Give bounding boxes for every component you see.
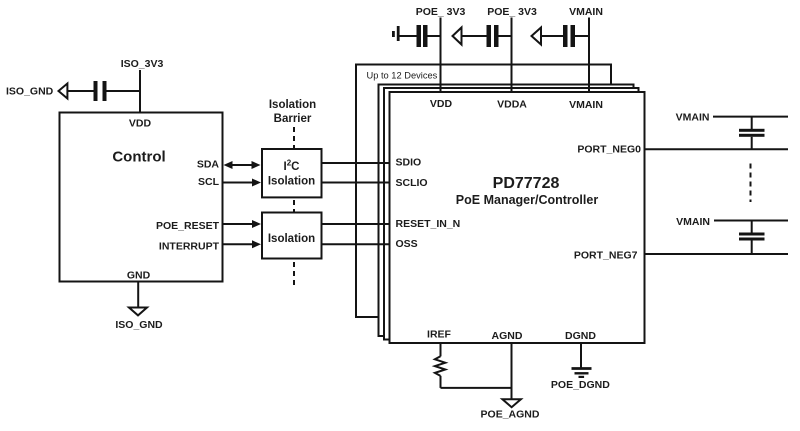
- svg-text:IREF: IREF: [427, 329, 452, 341]
- svg-text:Up to 12 Devices: Up to 12 Devices: [367, 70, 438, 80]
- svg-text:ISO_3V3: ISO_3V3: [121, 58, 164, 70]
- svg-text:DGND: DGND: [565, 330, 596, 342]
- svg-text:VDD: VDD: [129, 118, 152, 130]
- svg-text:SDA: SDA: [197, 159, 220, 171]
- svg-text:POE_ 3V3: POE_ 3V3: [416, 6, 466, 18]
- svg-text:PORT_NEG0: PORT_NEG0: [577, 144, 641, 156]
- svg-text:VMAIN: VMAIN: [676, 216, 710, 228]
- svg-text:ISO_GND: ISO_GND: [6, 86, 54, 98]
- svg-text:Barrier: Barrier: [274, 113, 312, 125]
- svg-text:I2C: I2C: [284, 159, 300, 174]
- svg-text:Control: Control: [112, 148, 165, 165]
- svg-text:POE_RESET: POE_RESET: [156, 220, 220, 232]
- svg-text:VMAIN: VMAIN: [569, 6, 603, 18]
- svg-text:SDIO: SDIO: [396, 157, 422, 169]
- svg-text:RESET_IN_N: RESET_IN_N: [396, 218, 461, 230]
- svg-text:SCL: SCL: [198, 176, 220, 188]
- svg-text:INTERRUPT: INTERRUPT: [159, 241, 220, 253]
- svg-text:VDDA: VDDA: [497, 99, 527, 111]
- svg-text:OSS: OSS: [396, 238, 418, 250]
- svg-text:VMAIN: VMAIN: [676, 112, 710, 124]
- svg-text:POE_DGND: POE_DGND: [551, 379, 610, 391]
- svg-text:PORT_NEG7: PORT_NEG7: [574, 250, 638, 262]
- svg-text:AGND: AGND: [492, 330, 523, 342]
- svg-text:SCLIO: SCLIO: [396, 177, 428, 189]
- svg-text:GND: GND: [127, 270, 151, 282]
- svg-text:PD77728: PD77728: [493, 175, 560, 192]
- svg-text:POE_AGND: POE_AGND: [481, 409, 540, 421]
- svg-text:VMAIN: VMAIN: [569, 99, 603, 111]
- svg-text:POE_ 3V3: POE_ 3V3: [487, 6, 537, 18]
- svg-text:VDD: VDD: [430, 98, 453, 110]
- svg-text:ISO_GND: ISO_GND: [115, 319, 163, 331]
- svg-text:PoE Manager/Controller: PoE Manager/Controller: [456, 193, 599, 207]
- svg-text:Isolation: Isolation: [269, 99, 316, 111]
- svg-text:Isolation: Isolation: [268, 176, 315, 188]
- svg-text:Isolation: Isolation: [268, 233, 315, 245]
